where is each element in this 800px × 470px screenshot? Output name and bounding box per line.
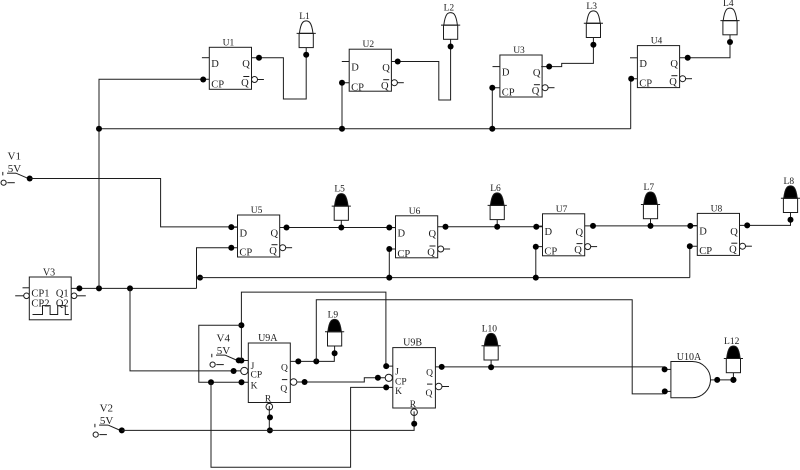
svg-text:Q: Q — [532, 86, 540, 97]
svg-text:Q: Q — [670, 59, 678, 70]
D flip-flop U2 — [342, 40, 404, 93]
svg-text:CP: CP — [502, 88, 515, 99]
svg-text:Q: Q — [574, 245, 582, 256]
wire bus to U4 CP — [628, 76, 637, 129]
wire V3 Q1 output — [71, 285, 196, 291]
svg-text:Q: Q — [381, 81, 389, 92]
svg-text:L10: L10 — [482, 324, 498, 334]
svg-text:V1: V1 — [8, 151, 21, 163]
wire U8 Q to L8 — [740, 220, 791, 229]
svg-text:K: K — [251, 382, 258, 392]
D flip-flop U3 — [493, 46, 555, 99]
lamp L8 — [781, 177, 800, 223]
svg-text:Q: Q — [269, 246, 277, 257]
wire U7 Q to U8 D — [585, 223, 698, 229]
wire V4 riser to U9B J link — [238, 292, 392, 369]
lamp L3 — [584, 2, 603, 48]
wire V2 to U9B R — [122, 429, 414, 431]
D flip-flop U4 — [630, 37, 692, 90]
svg-text:Q: Q — [241, 78, 249, 89]
switch source V4 5V — [210, 332, 242, 367]
svg-text:D: D — [545, 227, 553, 238]
svg-text:U9B: U9B — [403, 337, 422, 348]
lamp L4 — [720, 0, 739, 45]
wire U1 Q to L1 — [252, 55, 307, 99]
svg-text:V3: V3 — [43, 267, 55, 278]
svg-text:Q: Q — [281, 363, 288, 373]
svg-text:D: D — [699, 227, 707, 238]
lamp L6 — [488, 184, 507, 230]
svg-text:Q: Q — [427, 247, 435, 258]
wire bus to U6 CP — [386, 246, 395, 281]
wire clock bus row 2 — [197, 277, 690, 279]
D flip-flop U6 — [388, 207, 450, 260]
wire U4 Q to L4 — [680, 42, 730, 61]
wire U2 Q to L2 — [391, 47, 450, 101]
wire bus to U8 CP — [687, 243, 698, 277]
wire clock riser to U5 CP — [197, 245, 238, 289]
wire U5 Q to U6 D — [280, 225, 396, 231]
svg-text:CP: CP — [397, 249, 410, 260]
switch source V1 5V — [1, 151, 33, 186]
svg-text:U6: U6 — [409, 207, 421, 217]
wire U9A Q to AND gate input 2 — [316, 300, 668, 395]
wire V1 to U5 D — [30, 179, 238, 231]
wire U9A R to V2 line — [267, 406, 273, 434]
svg-text:CP2: CP2 — [31, 299, 49, 310]
wire K loop to U9B K — [211, 382, 393, 467]
svg-text:Q: Q — [730, 227, 738, 238]
wire U3 Q to L3 — [541, 45, 593, 70]
wire clock bus row 1 — [96, 126, 631, 132]
svg-text:U4: U4 — [651, 37, 663, 47]
lamp L7 — [641, 183, 660, 229]
wire U9B R riser — [411, 411, 417, 430]
svg-text:L5: L5 — [334, 185, 345, 195]
JK flip-flop U9B — [385, 337, 449, 415]
svg-text:L2: L2 — [444, 4, 455, 14]
wire clock to U9A CP — [130, 288, 241, 374]
svg-text:CP: CP — [699, 246, 712, 257]
D flip-flop U1 — [202, 38, 264, 90]
svg-text:Q: Q — [729, 245, 737, 256]
svg-text:U8: U8 — [711, 204, 723, 214]
lamp L2 — [441, 4, 460, 50]
svg-text:U3: U3 — [513, 46, 525, 56]
lamp L1 — [297, 12, 316, 58]
svg-text:CP: CP — [251, 371, 263, 381]
svg-text:U9A: U9A — [258, 333, 278, 344]
svg-text:V4: V4 — [217, 332, 231, 344]
svg-text:U5: U5 — [251, 206, 263, 216]
wire U9B Q to AND gate input 1 — [435, 364, 667, 373]
svg-text:Q: Q — [576, 228, 584, 239]
svg-text:L7: L7 — [644, 183, 655, 193]
wire V4 loop to U9A K — [199, 325, 249, 385]
svg-text:R: R — [410, 400, 417, 410]
svg-text:D: D — [502, 68, 510, 79]
svg-text:CP: CP — [239, 248, 252, 259]
svg-text:Q: Q — [382, 63, 390, 74]
wire U9A Qbar to U9B CP — [297, 375, 385, 385]
lamp L5 — [332, 185, 351, 231]
D flip-flop U8 — [690, 204, 752, 257]
wire V4 to U9A J — [238, 358, 248, 364]
svg-text:U1: U1 — [223, 38, 235, 48]
svg-text:D: D — [211, 59, 219, 70]
svg-text:Q: Q — [429, 229, 437, 240]
svg-text:L9: L9 — [328, 310, 339, 320]
svg-text:D: D — [351, 63, 359, 74]
svg-text:J: J — [395, 368, 399, 378]
D flip-flop U5 — [230, 206, 292, 259]
svg-text:Q: Q — [242, 59, 250, 70]
JK flip-flop U9A — [241, 333, 304, 410]
svg-text:CP: CP — [351, 83, 364, 94]
svg-text:R: R — [265, 395, 272, 405]
wire bus to U2 CP — [339, 80, 349, 132]
wire bus to U3 CP — [489, 85, 500, 132]
svg-text:Q: Q — [533, 68, 541, 79]
svg-text:K: K — [395, 387, 402, 397]
svg-text:D: D — [240, 228, 248, 239]
D flip-flop U7 — [535, 205, 597, 258]
svg-text:L3: L3 — [586, 2, 597, 12]
lamp L9 — [325, 310, 344, 356]
svg-text:Q: Q — [426, 389, 433, 399]
lamp L12 — [724, 337, 743, 383]
svg-text:CP: CP — [639, 79, 652, 90]
svg-text:U2: U2 — [362, 40, 374, 50]
wire U9A Q to L9 — [290, 353, 334, 364]
svg-text:D: D — [639, 59, 647, 70]
svg-text:U7: U7 — [556, 205, 568, 215]
wire clock riser to U1 CP — [99, 77, 209, 289]
lamp L10 — [482, 324, 501, 370]
svg-text:L1: L1 — [299, 12, 310, 22]
svg-text:CP: CP — [544, 247, 557, 258]
AND gate U10A — [665, 352, 718, 398]
wire U6 Q to U7 D — [438, 224, 543, 230]
wire bus to U7 CP — [533, 244, 543, 281]
svg-text:Q: Q — [669, 77, 677, 88]
svg-text:L6: L6 — [490, 184, 501, 194]
svg-text:Q: Q — [271, 229, 279, 240]
clock source V3 — [15, 267, 86, 319]
svg-text:L8: L8 — [784, 177, 795, 187]
svg-text:V2: V2 — [100, 402, 113, 414]
switch source V2 5V — [93, 402, 125, 437]
svg-text:Q: Q — [426, 369, 433, 379]
svg-text:L12: L12 — [724, 337, 740, 347]
svg-text:Q: Q — [280, 384, 287, 394]
svg-text:CP: CP — [211, 79, 224, 90]
wire U10A output to L12 — [714, 377, 736, 383]
svg-text:D: D — [398, 229, 406, 240]
